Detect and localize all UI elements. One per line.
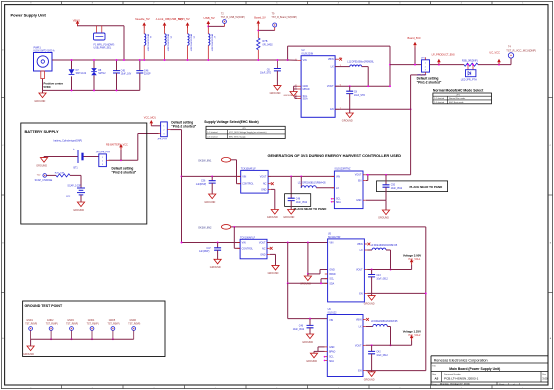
svg-text:Voltage 3.00V: Voltage 3.00V: [403, 254, 421, 258]
svg-text:BT1: BT1: [74, 168, 79, 170]
svg-text:L11 DFE1608xx1R0M05L: L11 DFE1608xx1R0M05L: [347, 62, 374, 64]
svg-text:C50: C50: [391, 184, 396, 186]
svg-text:SCAP_CHARGE: SCAP_CHARGE: [35, 179, 53, 182]
svg-text:GND: GND: [261, 188, 267, 191]
svg-text:2-3 shorted: 2-3 shorted: [434, 101, 444, 104]
svg-text:0R_0402: 0R_0402: [263, 43, 274, 46]
svg-text:VCC_MCU Voltage Supply (on sch: VCC_MCU Voltage Supply (on schematic): [229, 131, 267, 134]
svg-text:GROUND: GROUND: [268, 272, 279, 275]
svg-text:JPR_PTH: JPR_PTH: [157, 139, 167, 141]
svg-text:SCL: SCL: [336, 199, 341, 201]
svg-text:GND: GND: [356, 199, 362, 202]
svg-text:GROUND: GROUND: [342, 120, 353, 123]
svg-text:MMZ1608Y101BT: MMZ1608Y101BT: [190, 34, 192, 52]
svg-text:GROUND: GROUND: [267, 216, 278, 219]
svg-text:GND4: GND4: [88, 320, 95, 322]
svg-text:USB_5V: USB_5V: [204, 16, 215, 20]
svg-text:GROUND: GROUND: [34, 100, 45, 103]
svg-text:MMZ1608Y101BT: MMZ1608Y101BT: [210, 34, 212, 52]
svg-text:C47: C47: [206, 248, 211, 250]
svg-text:GND: GND: [329, 346, 335, 349]
svg-text:SCL: SCL: [329, 279, 334, 281]
svg-text:EHC 3V3C Supply: EHC 3V3C Supply: [229, 137, 245, 139]
svg-text:TCK106AF,LF: TCK106AF,LF: [240, 236, 256, 239]
svg-text:5VDC: 5VDC: [44, 85, 51, 89]
svg-text:SM712-02: SM712-02: [76, 73, 87, 75]
svg-text:10uF_0512: 10uF_0512: [391, 188, 403, 190]
svg-text:MMZ1608Y101BT: MMZ1608Y101BT: [167, 34, 169, 52]
svg-text:NC: NC: [262, 247, 266, 250]
svg-text:C43: C43: [376, 275, 381, 277]
svg-text:VIN: VIN: [329, 319, 333, 322]
svg-text:10uF_0612: 10uF_0612: [376, 278, 388, 280]
svg-text:L9 DFE160810/1R0M=05: L9 DFE160810/1R0M=05: [371, 245, 398, 247]
svg-text:1uF(DNP): 1uF(DNP): [199, 251, 210, 253]
svg-text:Supply Voltage Select(EHC Mode: Supply Voltage Select(EHC Mode): [204, 120, 258, 124]
svg-text:LX: LX: [360, 249, 363, 252]
svg-text:TST_R(NP): TST_R(NP): [25, 324, 37, 326]
svg-text:VBUS: VBUS: [73, 19, 80, 23]
svg-text:VOUT: VOUT: [259, 242, 266, 245]
svg-text:GROUND: GROUND: [204, 201, 215, 204]
svg-text:GROUND: GROUND: [36, 164, 47, 167]
svg-text:10uF_0612: 10uF_0612: [293, 329, 305, 331]
svg-text:GND5: GND5: [109, 320, 116, 322]
svg-text:VBIN: VBIN: [356, 319, 362, 322]
svg-text:VIN: VIN: [242, 242, 246, 245]
svg-text:TST_R(NP): TST_R(NP): [108, 324, 120, 326]
svg-text:R3B_0R(DNF): R3B_0R(DNF): [462, 59, 478, 62]
svg-text:GROUND: GROUND: [73, 209, 84, 212]
svg-text:MMZ1608Y101BT: MMZ1608Y101BT: [146, 34, 148, 52]
svg-text:LX: LX: [359, 326, 362, 329]
svg-text:GND3: GND3: [67, 320, 74, 322]
svg-text:VIN: VIN: [336, 175, 340, 178]
svg-text:1-2 shorted: 1-2 shorted: [207, 131, 217, 134]
svg-text:2: 2: [102, 161, 103, 163]
svg-text:PLACE NEAR TO PGND: PLACE NEAR TO PGND: [294, 207, 327, 211]
svg-text:EN: EN: [330, 108, 334, 111]
svg-text:3: 3: [102, 164, 103, 166]
svg-text:TST_R(NP): TST_R(NP): [128, 324, 140, 326]
svg-text:BATTERY SUPPLY: BATTERY SUPPLY: [25, 129, 60, 134]
svg-text:NC: NC: [263, 183, 267, 186]
svg-text:JP3 JPR_PTH: JP3 JPR_PTH: [96, 152, 111, 154]
svg-text:ISL9123IRTNZ: ISL9123IRTNZ: [335, 168, 351, 171]
svg-text:GND2: GND2: [47, 320, 54, 322]
svg-text:CONTROL: CONTROL: [242, 248, 254, 250]
svg-text:PLACE NEAR TO PGND: PLACE NEAR TO PGND: [410, 185, 443, 189]
svg-text:Positive centre: Positive centre: [44, 81, 64, 85]
svg-text:OK3W_6N2: OK3W_6N2: [198, 227, 212, 230]
svg-text:RE-BATTERY_VCC: RE-BATTERY_VCC: [106, 143, 128, 146]
svg-text:Needle_5V: Needle_5V: [135, 17, 150, 21]
svg-text:VBIN: VBIN: [328, 58, 334, 61]
svg-text:"Pin1-2 shorted": "Pin1-2 shorted": [417, 81, 442, 85]
svg-text:2: 2: [163, 129, 164, 131]
svg-text:ISL9122: ISL9122: [328, 312, 338, 315]
svg-text:Monday, October 07, 2019: Monday, October 07, 2019: [440, 383, 470, 386]
svg-text:1-2 shorted: 1-2 shorted: [434, 97, 444, 100]
svg-text:VIN: VIN: [303, 59, 307, 62]
svg-text:TST_R(NP): TST_R(NP): [66, 324, 78, 326]
svg-text:SM712: SM712: [98, 73, 106, 75]
svg-text:"Pin2-3 shorted": "Pin2-3 shorted": [112, 171, 137, 175]
svg-text:SDA: SDA: [329, 282, 334, 285]
svg-text:VOUT: VOUT: [355, 344, 362, 347]
svg-text:MIPI_5V: MIPI_5V: [179, 17, 190, 21]
svg-text:GROUND: GROUND: [284, 95, 294, 97]
svg-text:PCB.LT-HSNSN.J2003-1: PCB.LT-HSNSN.J2003-1: [444, 377, 479, 381]
svg-text:BPAD: BPAD: [329, 350, 335, 353]
svg-text:VIN: VIN: [329, 242, 333, 245]
svg-text:VCC_MCU: VCC_MCU: [144, 117, 157, 120]
svg-text:1: 1: [163, 126, 164, 128]
svg-text:C45: C45: [121, 70, 126, 73]
svg-text:PxC_VCL2: PxC_VCL2: [409, 334, 421, 337]
svg-text:VBIN: VBIN: [357, 243, 363, 246]
svg-text:"Pin1-2 shorted": "Pin1-2 shorted": [171, 124, 196, 128]
svg-text:10uF_16V: 10uF_16V: [121, 73, 132, 75]
svg-text:UC_VCC: UC_VCC: [489, 50, 500, 54]
svg-text:PxC_VCL1: PxC_VCL1: [409, 258, 421, 261]
svg-text:Renesas Electronics Corporatio: Renesas Electronics Corporation: [434, 358, 488, 362]
svg-text:1uF(DNP): 1uF(DNP): [196, 184, 207, 186]
svg-text:A3: A3: [435, 377, 439, 381]
svg-text:Voltage 1.25V: Voltage 1.25V: [403, 329, 421, 333]
svg-text:TCK106AF,LF: TCK106AF,LF: [241, 167, 257, 170]
svg-text:GND1: GND1: [26, 320, 33, 322]
svg-text:VOUT: VOUT: [327, 85, 334, 88]
svg-text:GENERATION OF 3V3 DURING ENERG: GENERATION OF 3V3 DURING ENERGY HARVEST …: [268, 153, 402, 158]
svg-text:L8 DFE160810/1R0M=05: L8 DFE160810/1R0M=05: [371, 321, 398, 323]
svg-text:CONTROL: CONTROL: [242, 184, 254, 186]
svg-text:ISL9122IIN: ISL9122IIN: [302, 54, 314, 56]
svg-text:Board_5V: Board_5V: [254, 16, 266, 20]
svg-text:GROUND TEST POINT: GROUND TEST POINT: [25, 304, 63, 308]
svg-text:VIN: VIN: [242, 176, 246, 179]
svg-text:TST_R_USB_5V(DNP): TST_R_USB_5V(DNP): [221, 17, 245, 19]
svg-text:MPAD: MPAD: [303, 88, 310, 91]
svg-text:GROUND: GROUND: [364, 379, 375, 382]
svg-text:GROUND: GROUND: [306, 360, 317, 363]
svg-text:C36: C36: [201, 181, 206, 183]
svg-text:Board_5V0: Board_5V0: [408, 36, 422, 40]
svg-text:1: 1: [102, 157, 103, 159]
svg-text:VOUT: VOUT: [260, 176, 267, 179]
svg-text:Power Supply Unit: Power Supply Unit: [11, 13, 47, 18]
svg-text:SDA: SDA: [329, 360, 334, 363]
svg-text:GROUND: GROUND: [210, 266, 221, 269]
svg-text:C48: C48: [296, 199, 301, 201]
svg-text:Rev: Rev: [542, 374, 546, 376]
svg-text:C46: C46: [299, 326, 304, 328]
svg-text:3: 3: [425, 70, 426, 72]
svg-text:Main Board (Power Supply Unit): Main Board (Power Supply Unit): [449, 367, 500, 371]
svg-text:3.00: 3.00: [542, 377, 548, 381]
svg-text:PWR1: PWR1: [34, 47, 42, 50]
svg-text:SCL: SCL: [329, 357, 334, 359]
svg-text:1: 1: [425, 63, 426, 65]
svg-text:TST_R_VCC_MCU(DNP): TST_R_VCC_MCU(DNP): [506, 48, 536, 52]
svg-text:GND: GND: [260, 253, 266, 256]
svg-text:EN: EN: [358, 370, 362, 373]
svg-text:Sheet: Sheet: [499, 383, 505, 386]
svg-text:EN: EN: [358, 180, 362, 183]
svg-text:LX: LX: [336, 187, 339, 190]
svg-text:10uF_0612: 10uF_0612: [376, 355, 388, 357]
svg-text:10uF_STD: 10uF_STD: [260, 73, 271, 75]
svg-text:C46: C46: [144, 70, 149, 73]
svg-text:GROUND: GROUND: [300, 283, 311, 286]
svg-text:GROUND: GROUND: [302, 341, 313, 344]
svg-text:Date:: Date:: [432, 383, 437, 386]
svg-text:TST_R(NP): TST_R(NP): [87, 324, 99, 326]
svg-text:BPAD: BPAD: [329, 273, 335, 276]
svg-text:VOUT: VOUT: [356, 269, 363, 272]
svg-text:+: +: [73, 147, 75, 151]
svg-text:TST_R(NP): TST_R(NP): [46, 324, 58, 326]
svg-text:SDA: SDA: [303, 97, 308, 100]
svg-text:GROUND: GROUND: [23, 353, 34, 356]
svg-text:EHC Boot mode: EHC Boot mode: [449, 101, 464, 104]
svg-text:SCAP_0.22F: SCAP_0.22F: [67, 185, 81, 188]
svg-text:GND6: GND6: [130, 320, 137, 322]
svg-text:2: 2: [425, 66, 426, 68]
svg-text:LX: LX: [331, 66, 334, 69]
svg-text:C42: C42: [376, 352, 381, 354]
svg-text:SDA: SDA: [336, 201, 341, 204]
svg-text:GROUND: GROUND: [270, 92, 281, 95]
svg-text:GROUND: GROUND: [364, 302, 375, 305]
svg-text:VOUT: VOUT: [355, 174, 362, 177]
svg-text:battery_Cylindertype(DNP): battery_Cylindertype(DNP): [54, 140, 83, 143]
svg-text:L12 DFE160810/1R0M=05: L12 DFE160810/1R0M=05: [298, 183, 326, 185]
svg-text:LED JPR_PTH: LED JPR_PTH: [461, 79, 477, 82]
svg-text:3: 3: [163, 133, 164, 135]
svg-text:GROUND: GROUND: [283, 216, 294, 219]
svg-text:USB_PWR_SEL: USB_PWR_SEL: [94, 46, 112, 49]
svg-text:10uF_0512: 10uF_0512: [296, 202, 308, 204]
svg-text:2200P: 2200P: [144, 73, 151, 75]
svg-text:TST_R_Board_5V(DNP): TST_R_Board_5V(DNP): [271, 16, 297, 19]
svg-text:ISL91127IR: ISL91127IR: [328, 236, 341, 239]
svg-text:2-3 shorted: 2-3 shorted: [207, 136, 217, 139]
svg-text:Normal Mode/EHC Mode Select: Normal Mode/EHC Mode Select: [433, 88, 484, 92]
svg-text:LP_PRODUCT_EN0: LP_PRODUCT_EN0: [432, 53, 456, 56]
svg-text:10uF_STD: 10uF_STD: [354, 95, 365, 97]
svg-text:GND: GND: [329, 269, 335, 272]
svg-text:GROUND: GROUND: [378, 217, 389, 220]
svg-text:OK3W_6N1: OK3W_6N1: [198, 160, 212, 163]
svg-text:Document Number: Document Number: [444, 373, 461, 376]
svg-text:EN: EN: [359, 292, 363, 295]
svg-text:Normal Run mode: Normal Run mode: [449, 98, 466, 100]
